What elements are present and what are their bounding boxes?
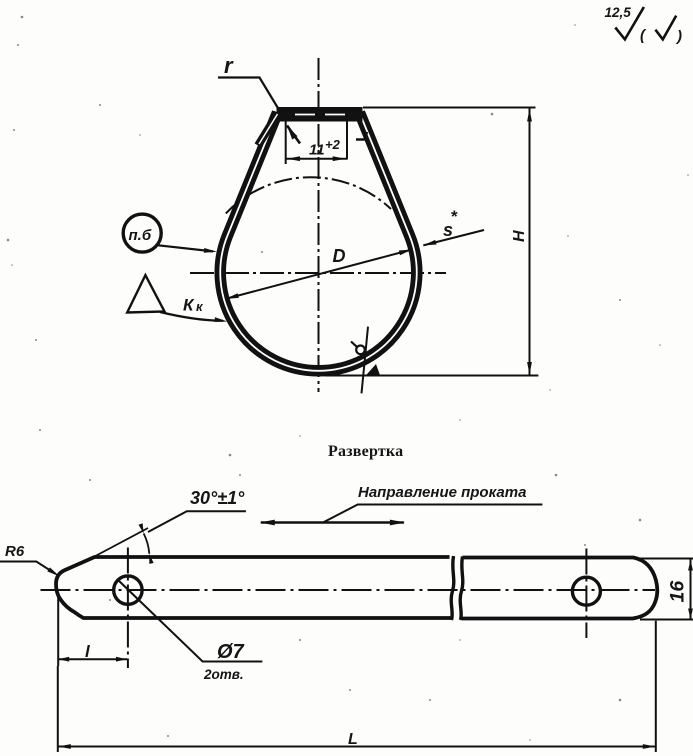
right inner step <box>356 132 367 140</box>
svg-text:12,5: 12,5 <box>605 5 632 20</box>
svg-text:R6: R6 <box>5 543 25 560</box>
svg-text:(: ( <box>640 27 647 44</box>
svg-text:11: 11 <box>309 142 325 159</box>
left hole <box>114 576 142 604</box>
svg-text:H: H <box>511 230 528 242</box>
top flat (overlapped band ends) <box>277 107 363 122</box>
r inner arrow <box>287 126 298 140</box>
vertical centerline <box>318 58 320 392</box>
strip right part outline <box>462 558 657 619</box>
svg-text:2отв.: 2отв. <box>203 667 244 682</box>
svg-text:+2: +2 <box>325 137 341 152</box>
svg-text:п.б: п.б <box>129 227 152 244</box>
svg-text:L: L <box>348 731 358 748</box>
left flange <box>258 113 278 146</box>
label circle p.b <box>123 214 161 252</box>
svg-text:l: l <box>85 642 91 661</box>
svg-text:): ) <box>675 28 682 45</box>
H dimension <box>363 107 536 109</box>
bottom mark: diagonal with glyph <box>362 327 369 394</box>
svg-text:30°±1°: 30°±1° <box>190 488 245 508</box>
l dimension <box>57 596 59 666</box>
D dimension <box>226 250 412 299</box>
svg-text:16: 16 <box>667 581 689 603</box>
horizontal centerline <box>190 272 446 274</box>
svg-text:Развертка: Развертка <box>328 443 403 460</box>
svg-text:r: r <box>224 53 234 78</box>
right break line <box>460 557 463 621</box>
30 deg dimension <box>86 528 148 561</box>
svg-text:D: D <box>333 246 346 266</box>
strip horizontal centerline <box>41 589 656 591</box>
svg-text:Ø7: Ø7 <box>217 641 245 663</box>
dia 7 leader <box>117 579 262 662</box>
s* leader <box>423 230 484 245</box>
svg-text:Направление проката: Направление проката <box>358 484 526 501</box>
dim 11+2 <box>285 121 287 164</box>
dash-dot arc (tube top) <box>226 177 391 213</box>
16 dimension <box>640 558 693 560</box>
svg-text:к: к <box>196 299 204 314</box>
clamp band <box>220 113 417 371</box>
L dimension <box>57 666 59 752</box>
strip left part outline <box>56 557 451 618</box>
right hole <box>572 577 600 605</box>
svg-text:К: К <box>183 296 195 315</box>
svg-text:*: * <box>451 207 458 226</box>
weld triangle <box>127 275 164 312</box>
left break line <box>451 556 454 620</box>
band white core <box>220 113 417 371</box>
